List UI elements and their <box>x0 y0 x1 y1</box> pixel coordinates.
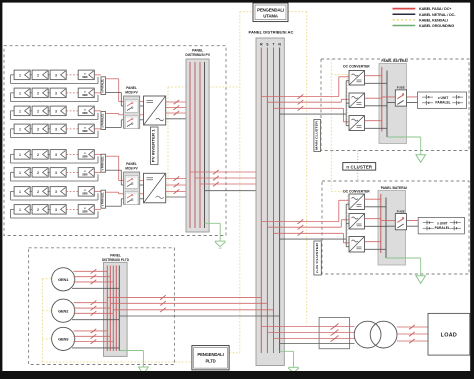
wire GEN1 phase 2 to PLTD bus <box>74 275 111 279</box>
PV string 2 return wire <box>11 93 99 102</box>
string combiner box 2 (x paralel) <box>101 112 106 130</box>
wire converter 1 output to battery bus (n-th cluster) <box>365 199 387 207</box>
fuse (n-th cluster) <box>395 214 406 230</box>
combiner 1 DC+ wire to MCB <box>106 79 124 102</box>
PV string 4 modules <box>14 124 94 134</box>
label PANEL DISTRIBUSI PV <box>185 48 210 57</box>
transformer T1 <box>354 321 397 348</box>
PV string 5 modules <box>14 150 94 160</box>
label PANEL DISTRIBUSI PLTD <box>102 254 130 262</box>
legend kabel grounding <box>393 25 416 27</box>
combiner 4 DC- wire to MCB <box>106 199 124 206</box>
PV bus ground wire <box>205 223 221 241</box>
svg-text:PARALEL: PARALEL <box>435 100 450 104</box>
label MAIN CLUSTER <box>314 120 321 152</box>
PV string 3 output wire <box>94 110 101 112</box>
wire PV bus to AC bus phase <box>195 176 267 180</box>
svg-text:DISTRIBUSI PV: DISTRIBUSI PV <box>185 53 210 57</box>
combiner 1 DC- wire to MCB <box>106 93 124 106</box>
panel baterai busbar (main cluster) <box>379 64 407 144</box>
wire PLTD bus to AC bus phase <box>107 295 261 299</box>
dotted link between clusters <box>357 151 359 182</box>
PV inverter 2 <box>144 173 166 203</box>
PV string 3 modules <box>14 106 94 116</box>
PV inverter 1 <box>144 96 166 125</box>
string combiner box 4 (x paralel) <box>101 190 106 208</box>
wire PV bus to AC bus phase <box>190 170 261 174</box>
wire AC bus to load breaker phase <box>267 332 319 334</box>
svg-text:SERI: SERI <box>82 94 88 97</box>
wire AC bus neutral to converters (main cluster) <box>280 81 349 126</box>
svg-text:FUSE: FUSE <box>397 209 405 213</box>
svg-text:FUSE: FUSE <box>397 86 405 90</box>
svg-text:PANEL BATERAI: PANEL BATERAI <box>381 59 407 63</box>
PV string 6 output wire <box>94 171 101 173</box>
wire AC bus to load breaker neutral <box>280 343 320 345</box>
PV string 7 output wire <box>94 190 101 192</box>
PLTD grounding arrow <box>139 367 149 375</box>
wire AC bus phase 2 to converter (n-th cluster) <box>267 220 349 230</box>
combiner 2 DC- wire to MCB <box>106 120 124 128</box>
grounding arrow (n-th cluster) <box>416 276 426 284</box>
svg-text:KABEL GROUNDING: KABEL GROUNDING <box>419 24 454 28</box>
kendali wire branch to PV inverters <box>168 86 240 88</box>
PV string 6 modules <box>14 168 94 178</box>
panel baterai busbar (n-th cluster) <box>378 191 406 266</box>
svg-text:DC CONVERTER: DC CONVERTER <box>343 190 370 194</box>
svg-text:n-th CLUSTER: n-th CLUSTER <box>315 242 319 273</box>
svg-text:SERI: SERI <box>82 76 88 79</box>
PV string 1 return wire <box>11 75 99 84</box>
wire AC bus to load breaker phase <box>261 326 319 328</box>
svg-text:UTAMA: UTAMA <box>263 14 279 19</box>
wire transformer to load phase <box>397 332 428 336</box>
PV string 8 modules <box>14 205 94 215</box>
label n-th CLUSTER <box>314 241 321 275</box>
wire GEN3 neutral to PLTD bus <box>72 347 119 349</box>
DC converter 2 (n-th cluster) <box>349 214 365 230</box>
label n CLUSTER <box>343 163 376 171</box>
wire transformer to load phase <box>397 339 428 343</box>
kendali wire from PENGENDALI UTAMA left to PLTD controller <box>240 11 253 13</box>
battery bank x unit paralel (n-th cluster) <box>418 217 464 234</box>
legend kabel fasa / DC+ <box>393 8 416 10</box>
wire inverter 2 neutral output <box>166 196 205 198</box>
svg-text:PV INVERTER 1: PV INVERTER 1 <box>152 129 156 162</box>
svg-text:MCB PV: MCB PV <box>125 167 138 171</box>
n-th cluster battery section dashed boundary <box>322 181 469 274</box>
wire GEN2 phase 3 to PLTD bus <box>74 311 114 315</box>
battery panel grounding wire (main cluster) <box>387 137 421 155</box>
wire AC bus to load breaker phase <box>274 338 320 340</box>
wire GEN2 neutral to PLTD bus <box>72 319 119 321</box>
wire AC bus phase 1 to converter (main cluster) <box>261 77 349 99</box>
kendali branch to main cluster DC converters <box>331 74 347 76</box>
svg-text:SERI: SERI <box>82 193 88 196</box>
svg-text:PANEL DISTRIBUSI AC: PANEL DISTRIBUSI AC <box>249 31 295 35</box>
LOAD box <box>428 313 470 355</box>
label PANEL MCB PV 2 <box>125 162 138 170</box>
PV string 3 return wire <box>11 111 99 120</box>
PV string 8 output wire <box>94 208 101 210</box>
wire PV bus to AC bus neutral <box>205 190 280 192</box>
wire MCB to inverter 1 <box>140 102 144 107</box>
battery panel grounding wire (n-th cluster) <box>386 258 421 276</box>
DC converter 1 (main cluster) <box>349 71 365 86</box>
wire MCB to inverter 1 <box>140 115 144 120</box>
PV string 1 output wire <box>94 74 101 76</box>
svg-text:PENGENDALI: PENGENDALI <box>197 352 223 357</box>
svg-text:SERI: SERI <box>82 130 88 133</box>
PLTD bus grounding wire <box>119 351 143 368</box>
wire converter 3 output to battery bus (main cluster) <box>365 121 388 129</box>
load breaker panel <box>319 318 354 349</box>
generator GEN2 <box>52 299 75 322</box>
battery bank x unit paralel (main cluster) <box>418 92 467 108</box>
wire converter 2 output to battery bus (n-th cluster) <box>365 219 387 227</box>
combiner 4 DC+ wire to MCB <box>106 192 124 194</box>
panel distribusi PV busbar <box>186 59 209 232</box>
combiner 3 DC- wire to MCB <box>106 170 124 185</box>
svg-text:SERI: SERI <box>82 112 88 115</box>
generator GEN1 <box>52 268 75 291</box>
PV string 1 modules <box>14 70 94 80</box>
fuse (main cluster) <box>395 90 406 106</box>
PV string 5 output wire <box>94 153 101 155</box>
combiner 2 DC+ wire to MCB <box>106 114 124 115</box>
DC converter 1 (n-th cluster) <box>349 194 365 210</box>
wire battery bus to fuse (main cluster) <box>382 97 418 103</box>
svg-text:n CLUSTER: n CLUSTER <box>346 164 373 169</box>
wire transformer to load phase <box>397 325 428 329</box>
PV string 2 modules <box>14 88 94 98</box>
svg-text:x PARALEL: x PARALEL <box>101 113 104 128</box>
svg-text:KABEL FASA / DC+: KABEL FASA / DC+ <box>419 7 451 11</box>
svg-text:GEN3: GEN3 <box>58 337 69 342</box>
wire converter 1 output to battery bus (main cluster) <box>365 76 388 84</box>
wire AC bus phase 3 to converter (n-th cluster) <box>274 231 350 243</box>
panel distribusi PLTD busbar <box>104 262 128 356</box>
wire AC bus phase 1 to converter (n-th cluster) <box>261 200 349 223</box>
wire GEN1 neutral to PLTD bus <box>72 287 119 289</box>
kendali wire down to battery clusters <box>330 59 332 192</box>
wire AC bus neutral to converters (n-th cluster) <box>280 204 349 247</box>
wire inverter 2 phase output <box>166 176 190 180</box>
DC converter 3 (main cluster) <box>349 116 365 131</box>
wire inverter 1 phase output <box>166 100 190 104</box>
svg-text:PANEL BATERAI: PANEL BATERAI <box>381 186 407 190</box>
panel distribusi AC busbar <box>256 38 284 366</box>
wire converter 3 output to battery bus (n-th cluster) <box>365 242 387 250</box>
svg-text:PARALEL: PARALEL <box>435 226 450 230</box>
PV string 4 return wire <box>11 129 99 138</box>
AC bus ground wire <box>280 351 294 367</box>
svg-text:DISTRIBUSI PLTD: DISTRIBUSI PLTD <box>102 258 130 262</box>
main cluster battery section dashed boundary <box>321 59 469 151</box>
label PV INVERTER 1 <box>151 127 159 165</box>
DC converter 2 (main cluster) <box>349 93 365 108</box>
svg-text:GEN1: GEN1 <box>58 277 69 282</box>
svg-text:x PARALEL: x PARALEL <box>101 156 104 171</box>
svg-text:PANEL: PANEL <box>192 48 203 52</box>
wire AC bus phase 3 to converter (main cluster) <box>274 106 350 122</box>
wire inverter 1 phase output <box>166 105 190 109</box>
svg-text:GEN2: GEN2 <box>58 308 69 313</box>
svg-text:x UNIT: x UNIT <box>437 221 447 225</box>
wire MCB to inverter 2 <box>140 194 144 199</box>
wire GEN2 phase 2 to PLTD bus <box>74 306 111 310</box>
AC bus ground symbol <box>288 366 299 368</box>
wire GEN2 phase 1 to PLTD bus <box>74 301 108 305</box>
PV string 7 modules <box>14 187 94 197</box>
panel MCB PV 1 <box>124 96 140 129</box>
generator GEN3 <box>52 327 75 350</box>
legend kabel netral / DC- <box>393 13 416 15</box>
svg-text:PENGENDALI: PENGENDALI <box>257 7 284 12</box>
PV string 5 return wire <box>11 154 99 163</box>
PV string 6 return wire <box>11 172 99 181</box>
svg-text:MAIN CLUSTER: MAIN CLUSTER <box>315 120 319 150</box>
wire inverter 2 phase output <box>166 189 190 193</box>
wire inverter 1 neutral output <box>166 118 205 120</box>
svg-text:x PARALEL: x PARALEL <box>101 192 104 207</box>
wire MCB to inverter 2 <box>140 181 144 186</box>
wire GEN3 phase 3 to PLTD bus <box>74 339 114 343</box>
svg-text:x UNIT: x UNIT <box>438 96 448 100</box>
wire AC bus phase 2 to converter (main cluster) <box>267 99 349 104</box>
grounding arrow (main cluster) <box>416 155 426 163</box>
wire inverter 2 phase output <box>166 183 190 187</box>
svg-text:PLTD: PLTD <box>205 359 215 364</box>
svg-text:SERI: SERI <box>82 211 88 214</box>
svg-text:MCB PV: MCB PV <box>125 90 138 94</box>
PV string 2 output wire <box>94 92 101 94</box>
wire battery bus to fuse (n-th cluster) <box>381 221 418 227</box>
PLTD genset section dashed boundary <box>29 248 175 365</box>
PV string 4 output wire <box>94 128 101 130</box>
wire GEN3 phase 1 to PLTD bus <box>74 329 108 333</box>
PV string 7 return wire <box>11 191 99 200</box>
svg-text:KABEL NETRAL / DC-: KABEL NETRAL / DC- <box>419 13 456 17</box>
kendali branch to n-th cluster DC converters <box>331 191 347 193</box>
wire PLTD bus to AC bus phase <box>113 308 273 312</box>
wire inverter 1 phase output <box>166 111 190 115</box>
wire GEN3 phase 2 to PLTD bus <box>74 334 111 338</box>
PLTS PV section dashed boundary <box>4 46 226 236</box>
wire GEN1 phase 1 to PLTD bus <box>74 269 108 273</box>
string combiner box 1 (x paralel) <box>101 77 106 95</box>
kendali wire down to load breaker <box>306 12 308 325</box>
svg-text:SERI: SERI <box>82 174 88 177</box>
PENGENDALI UTAMA controller box <box>253 3 288 22</box>
combiner 3 DC+ wire to MCB <box>106 156 124 180</box>
PV bus ground symbol <box>215 240 226 242</box>
svg-text:KABEL KENDALI: KABEL KENDALI <box>419 19 448 23</box>
wire PLTD bus to AC bus neutral <box>119 315 279 317</box>
legend kabel kendali <box>393 19 416 21</box>
wire PLTD bus to AC bus phase <box>110 301 267 305</box>
svg-text:LOAD: LOAD <box>441 332 457 338</box>
PENGENDALI PLTD controller box <box>192 346 229 370</box>
PV string 8 return wire <box>11 209 99 218</box>
panel MCB PV 2 <box>124 172 140 205</box>
label PANEL MCB PV 1 <box>125 86 138 94</box>
kendali wire from PENGENDALI UTAMA right side <box>288 11 307 13</box>
svg-text:x PARALEL: x PARALEL <box>101 78 104 92</box>
wire GEN1 phase 3 to PLTD bus <box>74 280 114 284</box>
svg-text:SERI: SERI <box>82 156 88 159</box>
DC converter 3 (n-th cluster) <box>349 237 365 253</box>
string combiner box 3 (x paralel) <box>101 154 106 172</box>
kendali wire to generators <box>41 279 43 362</box>
wire PV bus to AC bus phase <box>200 182 274 186</box>
svg-text:DC CONVERTER: DC CONVERTER <box>343 64 370 68</box>
wire converter 2 output to battery bus (main cluster) <box>365 98 388 106</box>
